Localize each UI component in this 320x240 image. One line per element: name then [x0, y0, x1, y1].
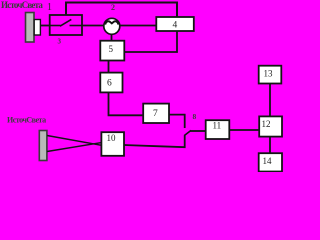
- box 5: [100, 41, 124, 61]
- svg-text:13: 13: [264, 69, 274, 79]
- box 12: [259, 116, 282, 136]
- light source L2 body: [39, 131, 47, 161]
- wire lamp to box5: [111, 34, 113, 40]
- box 10: [101, 132, 124, 156]
- wire box10 to switch 8: [124, 135, 185, 147]
- wire box11 to box12: [229, 129, 259, 131]
- svg-text:8: 8: [193, 112, 197, 121]
- light source L1 window: [34, 20, 40, 36]
- box 13: [259, 66, 282, 84]
- switch blade: [60, 19, 71, 26]
- box 6: [100, 73, 122, 93]
- wire lamp to switch box: [41, 25, 51, 27]
- light source L1 body: [26, 13, 35, 43]
- wire box5 to box6: [108, 61, 110, 73]
- wire box13 to box12: [269, 84, 271, 117]
- svg-text:11: 11: [213, 121, 222, 131]
- wire switch left contact: [50, 25, 61, 27]
- beam upper: [47, 136, 102, 146]
- wire lamp to box 4: [120, 25, 156, 27]
- svg-text:ИсточСвета: ИсточСвета: [1, 0, 43, 10]
- box 14: [259, 153, 282, 171]
- svg-text:3: 3: [58, 38, 62, 46]
- lamp circle 2: [104, 18, 120, 34]
- wire switch to box 11: [191, 130, 206, 132]
- svg-text:7: 7: [153, 109, 158, 119]
- svg-text:10: 10: [107, 133, 117, 143]
- svg-text:ИсточСвета: ИсточСвета: [7, 116, 46, 125]
- box 11: [206, 120, 230, 139]
- svg-text:6: 6: [107, 79, 112, 89]
- svg-text:1: 1: [47, 2, 52, 13]
- box 7: [143, 104, 169, 123]
- svg-text:4: 4: [173, 21, 178, 31]
- beam lower: [47, 143, 102, 152]
- switch box 3: [50, 15, 82, 35]
- wire top bus: [66, 3, 177, 18]
- lamp filament: [105, 21, 118, 24]
- wire box4 down to box5: [124, 31, 177, 52]
- svg-text:2: 2: [111, 3, 115, 12]
- switch 8 blade: [184, 130, 191, 135]
- wire box7 to switch 8: [169, 115, 185, 128]
- wire switch right contact: [70, 25, 83, 27]
- wire box12 to box14: [269, 137, 271, 153]
- svg-text:5: 5: [109, 44, 114, 54]
- svg-text:12: 12: [262, 119, 271, 129]
- box 4: [156, 17, 194, 31]
- wire switch to lamp: [82, 25, 104, 27]
- wire box6 to box7: [109, 92, 144, 115]
- svg-text:14: 14: [263, 156, 273, 166]
